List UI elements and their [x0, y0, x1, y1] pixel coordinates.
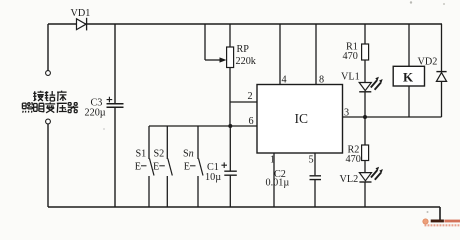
LED VL2 light arrows: [371, 170, 381, 180]
LED VL1: [359, 83, 371, 91]
wire VD2 bottom: [441, 81, 443, 117]
wire C3 top: [114, 24, 116, 103]
text 压 (former): [57, 103, 67, 113]
op-amp/timer IC box: [257, 85, 343, 154]
svg-text:VD1: VD1: [71, 8, 91, 19]
text 接 (connect): [33, 91, 44, 101]
node junction pin3/R1/R2: [363, 115, 367, 119]
wire pin 2: [230, 101, 257, 103]
svg-text:IC: IC: [295, 111, 309, 126]
resistor R1: [362, 44, 369, 60]
LED VL1 light arrows: [371, 80, 381, 90]
wire VL2 to bottom rail: [364, 182, 366, 207]
svg-text:470: 470: [343, 51, 358, 62]
wire pin 5: [314, 153, 316, 175]
wire pin 3 net: [343, 116, 442, 118]
svg-text:1: 1: [270, 155, 275, 166]
wire K bottom: [408, 86, 410, 117]
svg-text:2: 2: [248, 91, 253, 102]
svg-text:8: 8: [319, 75, 324, 86]
wire RP wiper vertical: [204, 24, 206, 60]
wire K top: [408, 24, 410, 66]
svg-text:Sn: Sn: [183, 149, 194, 160]
wire VD2 top: [441, 24, 443, 71]
diode VD2: [436, 71, 446, 73]
switch S2: [166, 126, 168, 159]
switch Sn: [197, 126, 199, 159]
svg-text:220µ: 220µ: [85, 108, 106, 119]
scan speckles (noise): [410, 1, 412, 3]
watermark dark text bar: [431, 220, 444, 223]
wire C2 bottom: [314, 180, 316, 207]
wire left vertical to upper terminal: [47, 24, 49, 71]
watermark small text row: [425, 224, 460, 226]
wire bottom ground rail: [48, 206, 440, 208]
wire R2 top: [364, 117, 366, 145]
switch S1: [148, 126, 150, 159]
capacitor C1: [224, 171, 237, 175]
svg-text:VL2: VL2: [340, 174, 359, 185]
wire RP wiper arm with arrow: [205, 59, 221, 61]
terminal upper input: [46, 71, 51, 76]
wire bottom right stub: [439, 207, 441, 221]
text 床 (press): [57, 91, 67, 102]
watermark logo circle: [423, 219, 428, 224]
svg-text:4: 4: [282, 75, 287, 86]
wire VL1 to node: [364, 92, 366, 117]
svg-text:VL1: VL1: [341, 72, 360, 83]
potentiometer RP body: [229, 24, 231, 47]
svg-text:0.01µ: 0.01µ: [266, 178, 290, 189]
terminal lower input: [46, 119, 51, 124]
relay K coil: [393, 66, 424, 86]
wire top supply rail: [48, 23, 442, 25]
capacitor C3: [107, 104, 124, 107]
wire R2 to VL2: [364, 161, 366, 173]
svg-text:E: E: [184, 162, 190, 173]
svg-text:S2: S2: [154, 149, 165, 160]
wire R1 top: [364, 24, 366, 44]
wire pin 6 / switch rail: [149, 125, 257, 127]
text 明: [34, 103, 44, 112]
svg-text:S1: S1: [136, 149, 147, 160]
watermark red text: [444, 220, 460, 223]
text 钻 (drill): [45, 91, 55, 101]
wire C1 bottom: [229, 176, 231, 207]
resistor R2: [362, 145, 369, 161]
svg-text:5: 5: [309, 155, 314, 166]
wire pin 1: [273, 153, 275, 207]
wire lower terminal to bottom rail: [47, 124, 49, 207]
node junction RP/C1/pin6: [228, 124, 232, 128]
diode VD1: [77, 19, 87, 30]
svg-text:6: 6: [249, 116, 254, 127]
label C3 plus: [107, 97, 113, 103]
text 器: [68, 103, 78, 113]
svg-text:10µ: 10µ: [205, 172, 221, 183]
label C1 plus: [221, 162, 227, 168]
svg-text:470: 470: [346, 154, 361, 165]
wire pin 4: [279, 24, 281, 85]
svg-text:E: E: [153, 162, 159, 173]
LED VL2: [359, 173, 371, 181]
svg-text:VD2: VD2: [418, 56, 438, 67]
svg-text:RP: RP: [237, 44, 250, 55]
wire pin 8: [315, 24, 317, 85]
wire C3 bottom: [114, 108, 116, 207]
wire C1 top: [229, 126, 231, 171]
wire R1 to VL1: [364, 60, 366, 83]
svg-text:E: E: [135, 162, 141, 173]
text 照 (illumination): [22, 103, 32, 113]
svg-text:220k: 220k: [236, 56, 257, 67]
text 变 (trans): [45, 102, 55, 112]
capacitor C2: [310, 176, 322, 180]
svg-text:K: K: [403, 70, 414, 85]
